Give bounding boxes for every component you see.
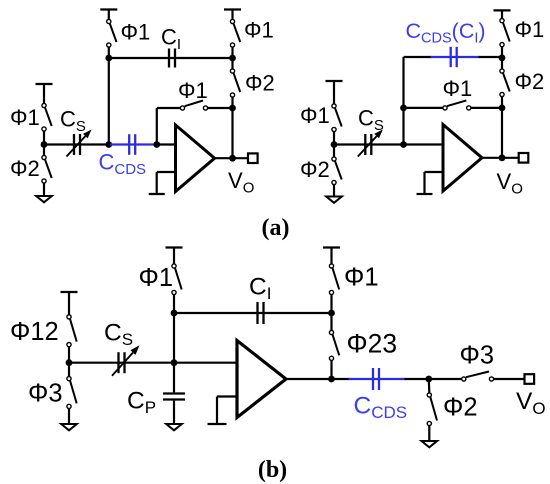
switch PHI3 output (b) bbox=[466, 372, 489, 378]
node input (a-left) bbox=[41, 141, 48, 148]
svg-text:Φ2: Φ2 bbox=[443, 394, 478, 422]
wire right rail lower (a-left) bbox=[231, 97, 233, 108]
svg-text:Φ1: Φ1 bbox=[121, 20, 151, 45]
wire stub top-left switch (a-left) bbox=[108, 47, 110, 58]
wire stub top-right (b) bbox=[330, 248, 332, 264]
switch PHI12 input (b) bbox=[70, 319, 77, 341]
node input (a-right) bbox=[331, 141, 338, 148]
wire CP upper (b) bbox=[173, 363, 175, 393]
wire right rail seg2 (a-right) bbox=[501, 97, 503, 108]
switch PHI2 right (a-right) bbox=[503, 73, 510, 91]
ground input (b) bbox=[61, 424, 77, 430]
op-amp U3 (b) bbox=[237, 341, 286, 418]
wire rail N1 up (a-right) bbox=[402, 57, 404, 145]
wire N2 to op-amp (a-left) bbox=[157, 143, 176, 145]
wire feedback right segment (a-left) bbox=[208, 107, 233, 109]
terminal T-bar top-left (b) bbox=[166, 246, 183, 248]
wire top feedback (b) bbox=[174, 312, 332, 314]
wire CDS blue (a-left) bbox=[110, 143, 155, 145]
terminal VO square (a-right) bbox=[519, 153, 529, 163]
svg-text:Φ1: Φ1 bbox=[515, 17, 545, 42]
capacitor CS (a-right) bbox=[364, 134, 366, 155]
switch PHI2 right (a-left) bbox=[234, 73, 241, 92]
node top-right (a-left) bbox=[229, 55, 236, 62]
svg-text:Φ1: Φ1 bbox=[300, 103, 330, 128]
svg-text:Φ3: Φ3 bbox=[460, 342, 495, 370]
switch PHI1 feedback (a-right) bbox=[447, 100, 466, 106]
node N1 (b) bbox=[171, 359, 178, 366]
wire feedback left segment (a-right) bbox=[404, 107, 443, 109]
wire stub top-right (a-left) bbox=[231, 10, 233, 20]
svg-text:Φ2: Φ2 bbox=[300, 157, 330, 182]
wire input node (a-left) bbox=[43, 131, 45, 155]
svg-text:Φ1: Φ1 bbox=[10, 105, 40, 130]
svg-text:CS: CS bbox=[358, 106, 384, 135]
switch PHI1 right (a-right) bbox=[503, 23, 510, 42]
wire output (a-left) bbox=[215, 157, 248, 159]
input terminal T-bar (a-right) bbox=[326, 80, 343, 82]
svg-text:Φ2: Φ2 bbox=[515, 69, 545, 94]
node top-left (a-left) bbox=[105, 55, 112, 62]
capacitor CS (b) bbox=[117, 352, 119, 373]
wire output (a-right) bbox=[482, 157, 519, 159]
wire CP lower (b) bbox=[173, 401, 175, 424]
capacitor CI (a-left) bbox=[168, 49, 170, 68]
ground op-amp (a-left) bbox=[149, 193, 165, 195]
wire to ground (b) bbox=[68, 409, 70, 424]
ground op-amp (a-right) bbox=[417, 193, 433, 195]
svg-text:VO: VO bbox=[516, 388, 546, 418]
wire rail N1 up (a-left) bbox=[108, 58, 110, 145]
wire input node (b) bbox=[68, 347, 70, 376]
switch PHI1 top-right (a-left) bbox=[234, 24, 241, 42]
node output (a-right) bbox=[499, 154, 506, 161]
input terminal T-bar (b) bbox=[61, 291, 78, 293]
node top-right (a-right) bbox=[499, 54, 506, 61]
svg-text:VO: VO bbox=[228, 168, 254, 197]
svg-text:CCDS: CCDS bbox=[99, 150, 147, 179]
ground input (a-right) bbox=[326, 197, 342, 203]
wire main input (b) bbox=[69, 362, 237, 364]
wire right rail seg1 (a-right) bbox=[501, 47, 503, 69]
wire main input (a-left) bbox=[44, 143, 109, 145]
terminal T-bar top-right (b) bbox=[323, 246, 340, 248]
wire top black left (a-right) bbox=[404, 56, 432, 58]
wire feedback L (a-left) bbox=[156, 108, 158, 145]
capacitor CP (b) bbox=[163, 392, 185, 394]
node feedback-right (a-left) bbox=[229, 105, 236, 112]
wire top feedback (a-left) bbox=[109, 57, 233, 59]
wire rail N1 up (b) bbox=[173, 313, 175, 363]
svg-text:CCDS(CI): CCDS(CI) bbox=[406, 19, 486, 47]
node feedback-right (a-right) bbox=[499, 105, 506, 112]
node output-right (b) bbox=[425, 376, 432, 383]
svg-text:Φ2: Φ2 bbox=[10, 156, 40, 181]
svg-text:CS: CS bbox=[60, 107, 86, 136]
wire right rail to output (a-left) bbox=[231, 108, 233, 158]
wire non-inverting input (b) bbox=[217, 395, 237, 397]
svg-text:Φ1: Φ1 bbox=[244, 18, 274, 43]
switch PHI1 input (a-right) bbox=[335, 108, 342, 126]
wire stub top-left (b) bbox=[173, 295, 175, 313]
svg-text:CI: CI bbox=[161, 25, 181, 54]
wire top blue (a-right) bbox=[431, 56, 480, 58]
capacitor CCDS-CI (a-right) bbox=[450, 47, 452, 67]
node output (b) bbox=[328, 376, 335, 383]
node output (a-left) bbox=[229, 155, 236, 162]
switch PHI2 (b) bbox=[430, 397, 437, 420]
switch PHI23 (b) bbox=[333, 335, 340, 356]
node N2 inverting input (a-left) bbox=[153, 141, 160, 148]
wire output (b) bbox=[286, 378, 350, 380]
terminal T-bar right (a-right) bbox=[494, 9, 511, 11]
wire stub PHI23 lower (b) bbox=[330, 361, 332, 379]
switch PHI1 feedback (a-left) bbox=[185, 101, 203, 107]
svg-text:Φ2: Φ2 bbox=[245, 71, 275, 96]
wire main input (a-right) bbox=[334, 143, 443, 145]
switch PHI1 input (a-left) bbox=[45, 108, 52, 126]
svg-text:(a): (a) bbox=[262, 215, 290, 241]
switch PHI1 top-left (a-left) bbox=[110, 24, 117, 42]
svg-text:Φ23: Φ23 bbox=[347, 329, 398, 359]
terminal T-bar top-left (a-left) bbox=[100, 8, 117, 10]
node feedback-left (a-right) bbox=[400, 105, 407, 112]
ground op-amp (b) bbox=[208, 423, 227, 425]
svg-text:VO: VO bbox=[497, 169, 523, 198]
svg-text:Φ1: Φ1 bbox=[443, 76, 473, 101]
op-amp U2 (a-right) bbox=[443, 125, 482, 192]
wire to ground (a-right) bbox=[333, 185, 335, 197]
switch PHI3 input (b) bbox=[70, 381, 77, 404]
svg-text:CS: CS bbox=[104, 320, 133, 350]
node input (b) bbox=[66, 359, 73, 366]
svg-text:Φ3: Φ3 bbox=[28, 380, 63, 408]
wire to VO (b) bbox=[494, 378, 525, 380]
svg-text:Φ12: Φ12 bbox=[10, 318, 59, 346]
svg-text:CI: CI bbox=[249, 274, 271, 304]
svg-text:Φ1: Φ1 bbox=[344, 264, 379, 292]
wire right rail to output (a-right) bbox=[501, 108, 503, 158]
ground input (a-left) bbox=[36, 196, 52, 202]
switch PHI2 input (a-left) bbox=[45, 160, 52, 178]
wire feedback right segment (a-right) bbox=[471, 107, 502, 109]
svg-text:Φ1: Φ1 bbox=[178, 78, 208, 103]
capacitor CI (b) bbox=[256, 302, 258, 324]
node N1 (a-right) bbox=[400, 141, 407, 148]
wire to ground (a-left) bbox=[43, 183, 45, 196]
svg-text:CP: CP bbox=[127, 388, 156, 418]
wire right rail upper (a-left) bbox=[231, 58, 233, 69]
switch PHI1 right (b) bbox=[333, 268, 340, 289]
switch PHI2 input (a-right) bbox=[335, 161, 342, 179]
op-amp U1 (a-left) bbox=[176, 125, 215, 192]
ground PHI2 (b) bbox=[422, 441, 438, 447]
svg-text:Φ1: Φ1 bbox=[139, 264, 174, 292]
wire CDS to node (b) bbox=[405, 378, 429, 380]
switch PHI1 left (b) bbox=[175, 268, 182, 289]
terminal T-bar top-right (a-left) bbox=[224, 8, 241, 10]
svg-text:(b): (b) bbox=[258, 457, 287, 483]
wire stub PHI23 upper (b) bbox=[330, 313, 332, 330]
wire input node (a-right) bbox=[333, 132, 335, 157]
capacitor CS (a-left) bbox=[73, 134, 75, 155]
terminal VO square (b) bbox=[525, 374, 535, 384]
wire stub PHI2 (b) bbox=[428, 379, 431, 393]
capacitor CCDS (a-left) bbox=[128, 134, 130, 155]
svg-text:CCDS: CCDS bbox=[354, 393, 408, 423]
wire CDS blue (b) bbox=[349, 378, 406, 380]
terminal VO square (a-left) bbox=[248, 153, 258, 163]
ground CP (b) bbox=[166, 424, 182, 430]
node top-left (b) bbox=[171, 310, 178, 317]
wire to PHI3 (b) bbox=[429, 378, 462, 380]
wire top black right (a-right) bbox=[479, 56, 503, 58]
wire non-inverting input (a-right) bbox=[425, 171, 444, 173]
node N1 (a-left) bbox=[105, 141, 112, 148]
wire stub right top (a-right) bbox=[501, 10, 503, 18]
capacitor CCDS (b) bbox=[372, 368, 374, 390]
node top-right (b) bbox=[328, 310, 335, 317]
input terminal T-bar (a-left) bbox=[36, 83, 53, 85]
wire non-inverting input (a-left) bbox=[157, 171, 176, 173]
wire PHI2 to ground (b) bbox=[428, 426, 430, 441]
